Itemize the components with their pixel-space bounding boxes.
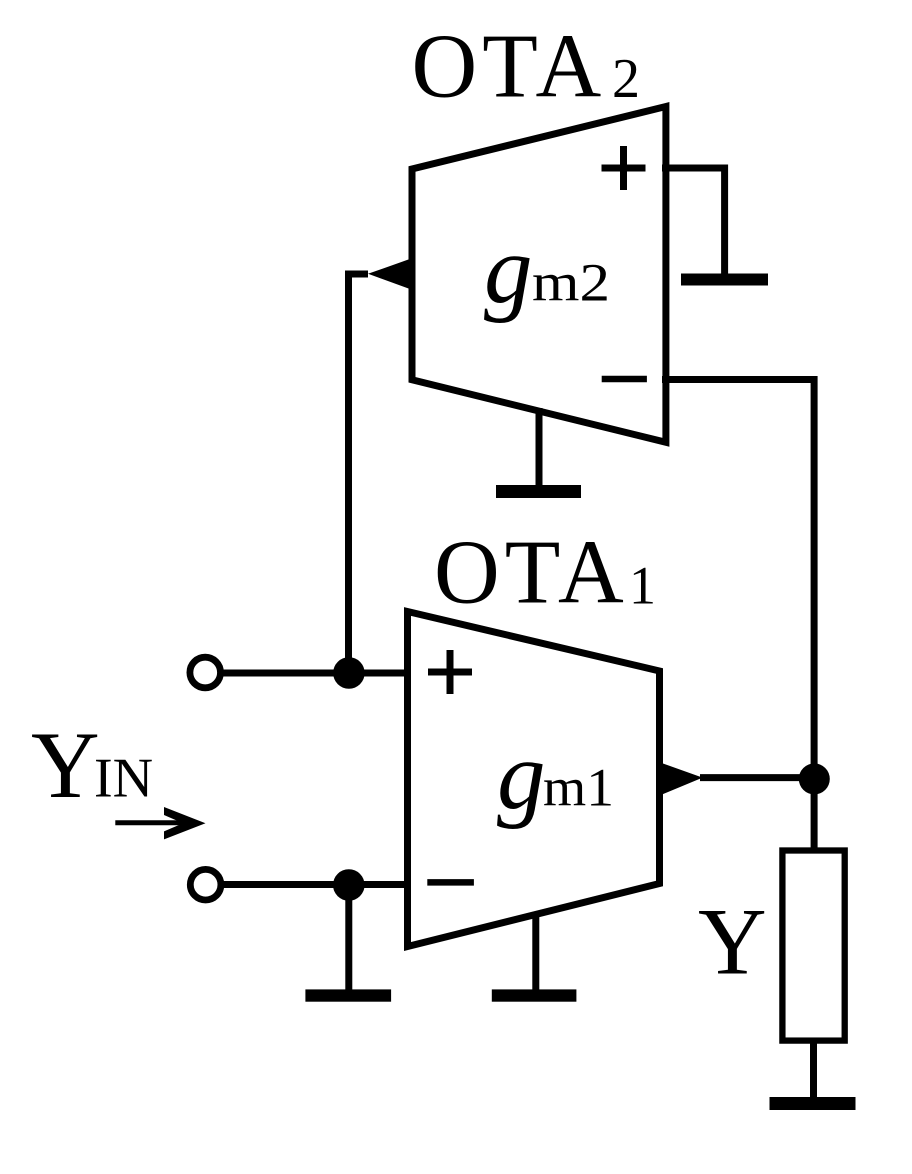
svg-text:OTA: OTA: [412, 16, 607, 117]
wire Y box to ground: [810, 1040, 817, 1098]
ground G4: [492, 989, 577, 1001]
wire top input: [220, 670, 404, 677]
wire U1 output to node B: [700, 774, 814, 781]
plus label U1: [428, 650, 472, 694]
svg-text:Y: Y: [698, 889, 767, 995]
ground G2: [496, 485, 581, 498]
ground G1: [681, 274, 768, 286]
svg-text:m1: m1: [543, 758, 614, 818]
minus label U1: [427, 879, 474, 886]
op-amp U1 (OTA1 body): [408, 612, 660, 947]
input arrow: [115, 807, 205, 839]
label YIN: [31, 712, 153, 818]
label gm2: [484, 216, 610, 323]
svg-text:Y: Y: [31, 712, 100, 818]
svg-text:2: 2: [612, 48, 640, 110]
node B junction dot: [799, 763, 830, 794]
ground G5: [770, 1097, 856, 1110]
ground G3: [305, 989, 391, 1001]
wire U2 plus input to ground: [662, 168, 725, 276]
output arrow U1: [656, 761, 703, 797]
svg-text:m2: m2: [532, 253, 610, 313]
svg-text:g: g: [497, 722, 546, 829]
output arrow U2: [368, 258, 414, 291]
wire bottom input: [220, 881, 404, 888]
wire U2 bottom ground stem: [536, 408, 543, 487]
admittance Y box: [782, 851, 844, 1041]
svg-text:OTA: OTA: [434, 522, 629, 623]
wire U2 minus output to node B: [662, 380, 814, 851]
terminal T1 (top input): [190, 657, 221, 688]
svg-text:IN: IN: [94, 748, 153, 810]
minus label U2: [602, 376, 647, 383]
svg-text:1: 1: [629, 556, 656, 616]
op-amp U2 (OTA2 body): [412, 107, 666, 443]
node A junction dot: [333, 657, 365, 689]
wire node C to ground: [345, 885, 352, 991]
node C junction dot: [333, 869, 365, 901]
wire U1 bottom ground stem: [532, 916, 539, 991]
svg-text:g: g: [484, 216, 533, 323]
plus label U2: [602, 146, 646, 190]
label OTA2: [412, 16, 641, 117]
label gm1: [497, 722, 614, 829]
wire from U2 output down to node A: [349, 274, 369, 673]
label OTA1: [434, 522, 656, 623]
terminal T2 (bottom input): [190, 869, 221, 900]
